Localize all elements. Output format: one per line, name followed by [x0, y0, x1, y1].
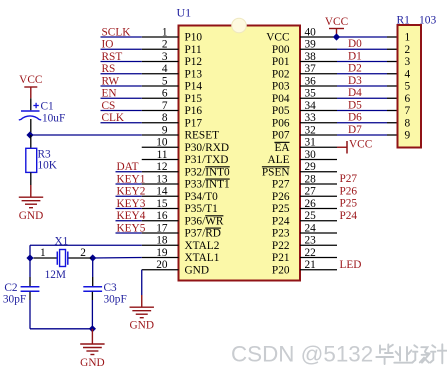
net label P27 — [340, 173, 358, 185]
svg-text:P03: P03 — [272, 81, 290, 93]
wire net D0 — [337, 48, 398, 50]
svg-text:35: 35 — [305, 88, 317, 100]
wire net D3 — [337, 85, 398, 87]
net label KEY3 — [117, 198, 146, 210]
U1 pin 22 number — [305, 247, 317, 259]
wire net CS — [101, 110, 142, 112]
svg-text:37: 37 — [305, 63, 317, 75]
wire net KEY3 — [116, 208, 142, 210]
U1 pin 5 number — [162, 75, 168, 87]
svg-text:P37/RD: P37/RD — [185, 228, 221, 240]
svg-text:2: 2 — [80, 247, 86, 259]
wire net D6 — [337, 122, 398, 124]
svg-text:38: 38 — [305, 51, 317, 63]
U1 pin 35 number — [305, 88, 317, 100]
svg-text:10K: 10K — [38, 160, 58, 172]
svg-text:24: 24 — [305, 222, 317, 234]
svg-text:10uF: 10uF — [42, 112, 65, 124]
R1 pin 1 number — [405, 32, 411, 44]
U1 pin 7 number — [162, 100, 168, 112]
wire node to ground — [91, 329, 93, 344]
wire net SCLK — [101, 36, 142, 38]
U1 pin 10 name — [185, 142, 230, 154]
net label D7 — [348, 124, 362, 136]
svg-text:IO: IO — [102, 39, 114, 51]
net label D1 — [348, 50, 362, 62]
wire XTAL2 (pin18) to crystal left node — [30, 245, 142, 258]
U1 pin 4 stub — [142, 73, 179, 75]
wire net RST — [101, 61, 142, 63]
R1 designator — [397, 15, 411, 27]
C2 value 30pF — [3, 293, 26, 305]
U1 pin 24 stub — [300, 232, 337, 234]
U1 pin 1 number — [162, 26, 168, 38]
wire reset node to U1 pin 9 — [30, 134, 142, 136]
U1 pin 34 number — [305, 100, 317, 112]
U1 pin 11 stub — [142, 159, 179, 161]
X1 value 12M — [45, 269, 66, 281]
svg-text:P00: P00 — [272, 44, 290, 56]
svg-text:VCC: VCC — [349, 138, 372, 150]
U1 pin 19 stub — [142, 257, 179, 259]
svg-text:P02: P02 — [272, 68, 290, 80]
svg-text:P25: P25 — [340, 198, 358, 210]
U1 pin 15 name — [185, 203, 218, 215]
U1 pin 38 number — [305, 51, 317, 63]
U1 pin 8 stub — [142, 122, 179, 124]
R1 pin 5 number — [405, 81, 411, 93]
svg-text:PSEN: PSEN — [262, 166, 290, 178]
svg-text:1: 1 — [40, 247, 46, 259]
R1 pin 8 number — [405, 117, 411, 129]
svg-text:P13: P13 — [185, 68, 203, 80]
svg-text:30pF: 30pF — [3, 293, 26, 305]
svg-text:32: 32 — [305, 124, 317, 136]
U1 pin 5 stub — [142, 85, 179, 87]
U1 pin 31 stub — [300, 146, 337, 148]
svg-text:12M: 12M — [45, 269, 66, 281]
U1 pin 18 stub — [142, 244, 179, 246]
C2 designator — [4, 282, 18, 294]
svg-text:15: 15 — [156, 198, 168, 210]
svg-text:D5: D5 — [348, 99, 362, 111]
svg-text:P17: P17 — [185, 117, 203, 129]
U1 pin 38 stub — [300, 61, 337, 63]
U1 pin 39 stub — [300, 48, 337, 50]
net label D3 — [348, 75, 362, 87]
svg-text:GND: GND — [130, 320, 154, 332]
svg-text:R1: R1 — [397, 15, 411, 27]
U1 pin 2 name — [185, 44, 202, 56]
svg-text:RESET: RESET — [185, 130, 220, 142]
wire net RS — [101, 73, 142, 75]
U1 pin 29 name — [262, 166, 290, 178]
svg-text:9: 9 — [405, 130, 411, 142]
svg-text:30pF: 30pF — [104, 293, 127, 305]
svg-text:21: 21 — [305, 259, 316, 271]
net label SCLK — [102, 26, 132, 38]
U1 pin 30 number — [305, 149, 317, 161]
U1 pin 13 stub — [142, 183, 179, 185]
U1 pin 26 number — [305, 198, 317, 210]
svg-text:14: 14 — [156, 186, 168, 198]
junction crystal left node — [26, 254, 33, 261]
svg-text:17: 17 — [156, 222, 168, 234]
power VCC (U1 pin 40) — [325, 16, 348, 37]
U1 pin 19 number — [156, 247, 168, 259]
U1 pin 35 stub — [300, 97, 337, 99]
X1 pin 1 number — [40, 247, 46, 259]
wire crystal right node down to C3 — [92, 258, 94, 286]
net label D5 — [348, 99, 362, 111]
svg-text:P26: P26 — [340, 185, 358, 197]
R1 pin 3 number — [405, 56, 411, 68]
wire net D4 — [337, 97, 398, 99]
U1 pin 20 number — [156, 259, 168, 271]
R3 value 10K — [38, 160, 58, 172]
net label KEY1 — [117, 173, 146, 185]
U1 pin 32 number — [305, 124, 317, 136]
U1 pin 34 name — [272, 105, 290, 117]
svg-text:P31/TXD: P31/TXD — [185, 154, 229, 166]
resistor network R1 body — [398, 25, 422, 148]
svg-text:6: 6 — [405, 93, 411, 105]
U1 pin 17 name — [185, 228, 221, 240]
svg-text:4: 4 — [162, 63, 168, 75]
X1 pin 2 number — [80, 247, 86, 259]
wire U1 pin 20 to ground — [141, 270, 143, 307]
U1 pin 16 name — [185, 215, 224, 227]
net label D6 — [348, 112, 362, 124]
power VCC (reset circuit) — [19, 74, 42, 98]
U1 pin 1 stub — [142, 36, 179, 38]
U1 pin 40 name — [266, 32, 289, 44]
svg-text:RW: RW — [102, 75, 120, 87]
R1 pin 9 number — [405, 130, 411, 142]
svg-text:P22: P22 — [272, 240, 290, 252]
IC U1 (8051 MCU) body — [179, 18, 301, 280]
wire net CLK — [101, 122, 142, 124]
junction VCC/pin40 — [333, 33, 340, 40]
svg-text:103: 103 — [419, 15, 437, 27]
svg-text:36: 36 — [305, 75, 317, 87]
svg-text:P16: P16 — [185, 105, 203, 117]
U1 pin 21 number — [305, 259, 316, 271]
U1 pin 33 number — [305, 112, 317, 124]
svg-text:P06: P06 — [272, 117, 290, 129]
wire net D2 — [337, 73, 398, 75]
capacitor C1 symbol — [19, 103, 41, 120]
C1 designator — [41, 101, 54, 113]
power VCC (EA pin) bar style — [347, 138, 372, 153]
svg-text:1: 1 — [162, 26, 168, 38]
svg-text:CLK: CLK — [102, 112, 125, 124]
net label RW — [102, 75, 120, 87]
svg-text:P23: P23 — [272, 228, 290, 240]
R1 pin 6 number — [405, 93, 411, 105]
svg-text:23: 23 — [305, 235, 317, 247]
junction C2/C3 ground node — [89, 325, 96, 332]
ground (crystal circuit) — [80, 344, 104, 369]
svg-text:P36/WR: P36/WR — [185, 215, 224, 227]
capacitor C3 symbol — [83, 287, 102, 291]
U1 pin 19 name — [185, 252, 220, 264]
net label KEY2 — [117, 186, 146, 198]
U1 pin 22 stub — [300, 257, 337, 259]
net label IO — [102, 39, 114, 51]
svg-text:KEY4: KEY4 — [117, 210, 146, 222]
svg-text:P25: P25 — [272, 203, 290, 215]
wire XTAL1 (pin19) to crystal right node — [93, 257, 142, 260]
U1 pin 30 name — [268, 154, 290, 166]
U1 pin 27 name — [272, 191, 290, 203]
svg-text:26: 26 — [305, 198, 317, 210]
net label RS — [102, 63, 116, 75]
U1 pin 23 name — [272, 240, 290, 252]
U1 pin 20 stub — [142, 269, 179, 271]
svg-text:D1: D1 — [348, 50, 362, 62]
resistor R3 body — [26, 148, 37, 172]
svg-text:P04: P04 — [272, 93, 290, 105]
U1 pin 23 number — [305, 235, 317, 247]
U1 pin 8 name — [185, 117, 203, 129]
svg-text:P35/T1: P35/T1 — [185, 203, 218, 215]
wire VCC to C1 — [30, 98, 32, 110]
U1 pin 40 stub — [300, 36, 337, 38]
U1 pin 3 number — [162, 51, 168, 63]
C3 value 30pF — [104, 293, 127, 305]
U1 pin 27 stub — [300, 195, 337, 197]
U1 pin 33 name — [272, 117, 290, 129]
R1 pin 4 number — [405, 68, 411, 80]
wire crystal left node down to C2 — [29, 258, 31, 286]
svg-text:P24: P24 — [340, 210, 358, 222]
svg-text:22: 22 — [305, 247, 317, 259]
wire VCC row to R1 pin 1 — [337, 36, 398, 38]
U1 pin 3 name — [185, 56, 203, 68]
svg-text:C2: C2 — [4, 282, 18, 294]
U1 pin 18 number — [156, 235, 168, 247]
U1 pin 34 stub — [300, 110, 337, 112]
net label EN — [102, 88, 117, 100]
net label D2 — [348, 63, 362, 75]
svg-text:P24: P24 — [272, 215, 290, 227]
svg-text:D6: D6 — [348, 112, 362, 124]
svg-text:39: 39 — [305, 39, 317, 51]
ground (U1 pin 20) — [130, 307, 154, 331]
svg-text:30: 30 — [305, 149, 317, 161]
U1 pin 23 stub — [300, 244, 337, 246]
wire net KEY5 — [116, 232, 142, 234]
U1 pin 13 name — [185, 179, 230, 191]
svg-text:GND: GND — [185, 264, 209, 276]
svg-text:5: 5 — [405, 81, 411, 93]
U1 pin 2 number — [162, 39, 168, 51]
junction crystal right node — [89, 254, 96, 261]
svg-text:7: 7 — [162, 100, 168, 112]
U1 pin 37 stub — [300, 73, 337, 75]
svg-text:RS: RS — [102, 63, 116, 75]
U1 pin 7 stub — [142, 110, 179, 112]
U1 pin 36 number — [305, 75, 317, 87]
U1 pin 38 name — [272, 56, 290, 68]
svg-text:VCC: VCC — [266, 32, 289, 44]
U1 pin 26 name — [272, 203, 290, 215]
U1 pin 27 number — [305, 186, 317, 198]
svg-text:D0: D0 — [348, 38, 362, 50]
capacitor C2 symbol — [21, 287, 40, 291]
svg-text:31: 31 — [305, 137, 316, 149]
svg-text:8: 8 — [405, 117, 411, 129]
crystal X1 symbol — [34, 250, 92, 267]
U1 pin 15 number — [156, 198, 168, 210]
U1 pin 24 number — [305, 222, 317, 234]
svg-text:P33/INT1: P33/INT1 — [185, 179, 230, 191]
net label D4 — [348, 87, 362, 99]
svg-text:19: 19 — [156, 247, 168, 259]
net label KEY4 — [117, 210, 146, 222]
wire node to R3 — [30, 135, 32, 148]
svg-text:VCC: VCC — [325, 16, 348, 28]
U1 pin 4 number — [162, 63, 168, 75]
svg-text:GND: GND — [80, 357, 104, 369]
U1 pin 32 name — [272, 130, 290, 142]
designator U1 — [177, 6, 192, 20]
U1 pin 14 name — [185, 191, 219, 203]
svg-text:11: 11 — [157, 149, 168, 161]
svg-text:XTAL1: XTAL1 — [185, 252, 220, 264]
U1 pin 35 name — [272, 93, 290, 105]
U1 pin 15 stub — [142, 208, 179, 210]
svg-text:13: 13 — [156, 173, 168, 185]
U1 pin 37 name — [272, 68, 290, 80]
U1 pin 16 number — [156, 210, 168, 222]
svg-text:C1: C1 — [41, 101, 54, 113]
svg-text:3: 3 — [162, 51, 168, 63]
svg-text:DAT: DAT — [117, 161, 139, 173]
U1 pin 29 stub — [300, 171, 337, 173]
U1 pin 32 stub — [300, 134, 337, 136]
svg-text:4: 4 — [405, 68, 411, 80]
U1 pin 37 number — [305, 63, 317, 75]
U1 pin 28 number — [305, 173, 317, 185]
U1 pin 7 name — [185, 105, 203, 117]
U1 pin 4 name — [185, 68, 203, 80]
svg-text:RST: RST — [102, 51, 123, 63]
svg-text:P21: P21 — [272, 252, 290, 264]
junction reset node — [26, 131, 33, 138]
svg-text:P32/INT0: P32/INT0 — [185, 166, 231, 178]
svg-text:C3: C3 — [104, 282, 118, 294]
U1 pin 9 stub — [142, 134, 179, 136]
svg-text:EA: EA — [274, 142, 290, 154]
U1 pin 16 stub — [142, 220, 179, 222]
svg-text:D4: D4 — [348, 87, 362, 99]
U1 pin 25 number — [305, 210, 317, 222]
svg-text:20: 20 — [156, 259, 168, 271]
U1 pin 14 stub — [142, 195, 179, 197]
net label D0 — [348, 38, 362, 50]
wire net DAT — [116, 171, 142, 173]
U1 pin 24 name — [272, 228, 290, 240]
svg-text:CS: CS — [102, 100, 116, 112]
svg-text:D3: D3 — [348, 75, 362, 87]
svg-text:X1: X1 — [55, 235, 69, 247]
svg-text:D7: D7 — [348, 124, 362, 136]
svg-text:1: 1 — [405, 32, 411, 44]
wire C3 down to ground node — [91, 292, 93, 329]
svg-text:34: 34 — [305, 100, 317, 112]
U1 pin 12 number — [156, 161, 168, 173]
wire net D1 — [337, 61, 398, 63]
U1 pin 14 number — [156, 186, 168, 198]
U1 pin 40 number — [305, 26, 317, 38]
svg-text:P15: P15 — [185, 93, 203, 105]
U1 pin 5 name — [185, 81, 203, 93]
net label P25 — [340, 198, 358, 210]
wire C1 to node — [30, 119, 32, 135]
svg-text:28: 28 — [305, 173, 317, 185]
net label P24 — [340, 210, 358, 222]
svg-text:GND: GND — [19, 210, 43, 222]
svg-text:8: 8 — [162, 112, 168, 124]
svg-text:27: 27 — [305, 186, 317, 198]
svg-text:P30/RXD: P30/RXD — [185, 142, 230, 154]
svg-text:2: 2 — [162, 39, 168, 51]
wire net KEY2 — [116, 195, 142, 197]
wire net D5 — [337, 110, 398, 112]
svg-text:P14: P14 — [185, 81, 203, 93]
U1 pin 6 stub — [142, 97, 179, 99]
U1 pin 1 name — [185, 32, 203, 44]
svg-text:33: 33 — [305, 112, 317, 124]
net label LED — [340, 259, 362, 271]
U1 pin 10 number — [156, 137, 168, 149]
R3 designator — [38, 149, 52, 161]
svg-text:7: 7 — [405, 105, 411, 117]
svg-text:P34/T0: P34/T0 — [185, 191, 219, 203]
U1 pin 31 name — [274, 142, 290, 154]
svg-text:P07: P07 — [272, 130, 290, 142]
U1 pin 8 number — [162, 112, 168, 124]
U1 pin 3 stub — [142, 61, 179, 63]
net label CLK — [102, 112, 125, 124]
wire net D7 — [337, 134, 398, 136]
svg-text:EN: EN — [102, 88, 117, 100]
svg-text:2: 2 — [405, 44, 411, 56]
svg-text:29: 29 — [305, 161, 317, 173]
U1 pin 12 name — [185, 166, 231, 178]
U1 pin 22 name — [272, 252, 290, 264]
U1 pin 17 number — [156, 222, 168, 234]
U1 pin 2 stub — [142, 48, 179, 50]
svg-text:KEY5: KEY5 — [117, 222, 146, 234]
U1 pin 6 name — [185, 93, 203, 105]
svg-text:P27: P27 — [272, 179, 290, 191]
crystal X1 designator — [55, 235, 69, 247]
wire net RW — [101, 85, 142, 87]
net label P26 — [340, 185, 358, 197]
U1 pin 31 number — [305, 137, 316, 149]
svg-text:KEY1: KEY1 — [117, 173, 146, 185]
svg-text:LED: LED — [340, 259, 362, 271]
U1 pin 9 number — [162, 124, 168, 136]
svg-text:P10: P10 — [185, 32, 203, 44]
U1 pin 39 name — [272, 44, 290, 56]
svg-text:CSDN @5132: CSDN @5132 — [231, 342, 373, 367]
svg-text:KEY3: KEY3 — [117, 198, 146, 210]
U1 pin 20 name — [185, 264, 209, 276]
